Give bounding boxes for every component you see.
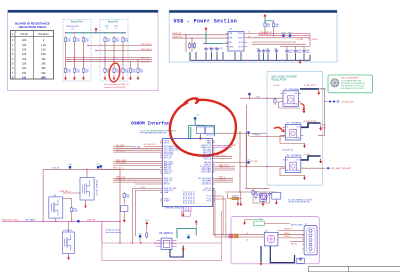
wire (113, 181, 160, 183)
wire (295, 53, 297, 60)
capacitor C42 (266, 49, 269, 54)
node junction (122, 57, 123, 58)
svg-text:REGULATOR: REGULATOR (272, 78, 287, 81)
svg-text:10U: 10U (289, 52, 293, 54)
wire thick out (301, 123, 321, 127)
wire (215, 236, 264, 238)
svg-text:SPI1_CS: SPI1_CS (164, 157, 172, 159)
node shell comp (297, 258, 305, 263)
wire (253, 202, 270, 204)
wire (86, 169, 88, 177)
wire (101, 221, 103, 243)
node junction (154, 242, 155, 243)
svg-text:MICRO USB B: MICRO USB B (291, 225, 304, 227)
wire (240, 97, 283, 99)
svg-text:resistors for SKU9 (NP): resistors for SKU9 (NP) (104, 86, 126, 89)
node FB1 (254, 221, 265, 226)
ground (129, 76, 132, 81)
resistor R11 10K (73, 36, 80, 43)
node junction (132, 242, 133, 243)
svg-text:USB_D+: USB_D+ (284, 233, 291, 235)
svg-text:TPS7B6950: TPS7B6950 (291, 155, 303, 157)
wire (240, 52, 242, 60)
wire (205, 52, 207, 60)
wire (113, 165, 160, 167)
svg-text:TP26: TP26 (281, 33, 286, 35)
svg-text:C60 0.1U: C60 0.1U (197, 125, 205, 127)
node usb connector box (231, 217, 319, 264)
wire pink loop (102, 211, 222, 261)
resistor R65 (70, 206, 78, 213)
resistor R21 10K (113, 36, 120, 43)
wire (211, 52, 213, 60)
power (195, 220, 198, 225)
node junction (113, 57, 114, 58)
node regulator box (267, 72, 323, 186)
node junction (74, 57, 75, 58)
svg-text:USB_TX_N: USB_TX_N (219, 167, 229, 169)
svg-text:OSC_OUT: OSC_OUT (203, 190, 212, 192)
capacitor C30 (204, 47, 212, 52)
wire (63, 192, 80, 194)
svg-text:BRD_ID0: BRD_ID0 (141, 57, 150, 59)
wire (134, 190, 136, 236)
op-amp U3 charger (228, 32, 244, 52)
node TP26 (281, 33, 286, 37)
wire (303, 53, 305, 60)
svg-text:GPIO_SPI_HOLD: GPIO_SPI_HOLD (194, 190, 196, 204)
svg-text:VCAP2: VCAP2 (164, 200, 170, 203)
node junction (246, 60, 247, 61)
capacitor C46 (302, 49, 310, 54)
wire navy (170, 246, 183, 257)
wire BRD_ID2 (66, 61, 153, 63)
svg-text:OUT1: OUT1 (238, 42, 243, 44)
svg-text:+5_MD: +5_MD (303, 154, 310, 156)
node junction (234, 60, 235, 61)
ground (243, 220, 246, 225)
svg-text:10K: 10K (22, 58, 27, 61)
capacitor C41 (262, 49, 265, 54)
wire (239, 131, 241, 192)
svg-text:5V0: 5V0 (96, 164, 99, 166)
node junction (119, 221, 120, 222)
wire (252, 41, 296, 43)
wire (182, 245, 184, 248)
svg-text:AP_WAKE: AP_WAKE (26, 218, 36, 221)
node Board Rev box (63, 20, 91, 82)
wire (69, 168, 71, 169)
wire (252, 43, 306, 45)
wire (113, 161, 160, 163)
node logo (330, 78, 339, 87)
svg-text:OUT: OUT (296, 127, 299, 129)
svg-text:Don't populate the BRD_ID: Don't populate the BRD_ID (104, 83, 130, 86)
svg-text:SD_CLK: SD_CLK (116, 147, 124, 149)
svg-text:Boot-loader disable: Boot-loader disable (106, 231, 121, 234)
wire (213, 234, 264, 236)
svg-text:62K: 62K (41, 72, 46, 75)
wire (250, 136, 285, 138)
wire (190, 127, 192, 139)
node node (138, 233, 141, 237)
capacitor C70 (299, 257, 302, 262)
node junction (195, 60, 196, 61)
svg-text:10U: 10U (297, 52, 301, 54)
svg-text:OUT: OUT (294, 93, 297, 95)
wire (286, 53, 288, 60)
wire (215, 169, 235, 171)
resistor R20 10K (104, 36, 111, 43)
svg-text:GPIO_SPI_HOLD: GPIO_SPI_HOLD (184, 190, 186, 204)
wire (215, 165, 235, 167)
wire (319, 88, 325, 90)
svg-text:SHORT & THE 0NR BY R31...: SHORT & THE 0NR BY R31... (288, 202, 311, 204)
wire ground bus (190, 52, 310, 60)
wire (68, 221, 70, 232)
wire ID (290, 241, 304, 243)
svg-text:Pull-Up: Pull-Up (20, 34, 28, 36)
svg-text:SWD_DIO: SWD_DIO (116, 179, 125, 181)
svg-text:R82 1K: R82 1K (291, 244, 298, 246)
resistor R33 inline (232, 197, 239, 200)
wire (123, 199, 125, 204)
node junction (113, 32, 114, 33)
wire VBUS (278, 230, 304, 232)
ground (303, 143, 306, 148)
svg-text:PWR_BTN_L R44 0: PWR_BTN_L R44 0 (2, 219, 19, 221)
wire SD_D0 (113, 149, 160, 151)
node junction (119, 242, 120, 243)
svg-text:10U: 10U (306, 52, 310, 54)
wire (131, 189, 133, 244)
resistor R70 (146, 232, 148, 239)
op-amp U5 regulator (285, 125, 301, 141)
wire (97, 168, 99, 169)
ground (239, 201, 242, 206)
wire (113, 163, 160, 165)
svg-text:Q5 PMOS_SOT23: Q5 PMOS_SOT23 (95, 180, 97, 196)
wire (215, 144, 232, 146)
power 5V0 (205, 27, 208, 32)
wire (55, 218, 57, 221)
wire (216, 52, 218, 60)
svg-text:L2: L2 (246, 233, 248, 235)
svg-text:SPI_CLK_R: SPI_CLK_R (216, 155, 227, 157)
wire (123, 212, 125, 220)
node junction (222, 60, 223, 61)
wire (247, 37, 310, 39)
svg-text:SPI2_CS: SPI2_CS (204, 158, 212, 160)
svg-text:TP27: TP27 (288, 33, 293, 35)
node comp (272, 192, 281, 199)
resistor R45 (264, 22, 271, 29)
svg-text:10K: 10K (22, 62, 27, 65)
node TP27 (288, 33, 293, 37)
node beads (230, 234, 234, 236)
svg-text:VOUT: VOUT (238, 33, 244, 35)
node U2 right pins (213, 140, 215, 142)
wire (264, 222, 290, 224)
svg-text:BRD_REV0: BRD_REV0 (141, 44, 152, 46)
wire (195, 52, 197, 60)
node header J2 (182, 211, 191, 216)
node node (247, 131, 249, 133)
node BOARD ID RESISTANCE SELECTION TABLE (11, 31, 54, 80)
wire (248, 134, 250, 136)
wire (191, 38, 193, 52)
op-amp U6 regulator (285, 157, 301, 173)
svg-text:BOOT0: BOOT0 (164, 184, 170, 186)
node USB Power Section box (169, 10, 337, 62)
wire (43, 168, 120, 170)
wire (215, 179, 233, 181)
wire (71, 198, 73, 206)
svg-text:SPK_AMP: SPK_AMP (331, 167, 342, 170)
wire (276, 53, 278, 60)
op-amp U8 (161, 238, 172, 249)
ground (67, 255, 70, 260)
wire (185, 35, 187, 52)
svg-text:+5_MD: +5_MD (297, 39, 304, 41)
ground (237, 201, 240, 206)
power (145, 220, 149, 227)
wire (42, 169, 44, 221)
wire (215, 158, 232, 160)
wire (113, 177, 160, 179)
ground (122, 76, 125, 81)
wire (188, 125, 190, 139)
ground (182, 246, 185, 251)
wire (234, 52, 236, 60)
power out (319, 159, 322, 164)
svg-text:L3: L3 (246, 240, 248, 242)
wire (189, 124, 215, 126)
power PP1V8 (319, 126, 322, 131)
svg-text:USB - Power Section: USB - Power Section (174, 19, 238, 25)
node junction (205, 60, 206, 61)
svg-text:BRD_REV1: BRD_REV1 (116, 162, 126, 164)
node U2 left pins (160, 140, 162, 142)
svg-text:GPIO_PB14: GPIO_PB14 (201, 172, 211, 174)
transistor Q6 (49, 197, 63, 218)
node junction (140, 242, 141, 243)
resistor R50 inline (132, 145, 144, 148)
node junction (294, 60, 295, 61)
wire (280, 46, 310, 48)
svg-text:SPK AMP: SPK AMP (342, 167, 351, 170)
wire (215, 195, 223, 197)
wire (65, 44, 67, 68)
ground (199, 136, 202, 141)
svg-text:INFORMATION CONTAINED IS: INFORMATION CONTAINED IS (341, 82, 366, 85)
wire (286, 47, 288, 49)
op-amp U4 regulator (283, 91, 299, 107)
wire BRD_ID0 (66, 57, 153, 59)
wire (71, 214, 73, 222)
ground (64, 76, 67, 81)
node left section frame (8, 10, 159, 91)
svg-text:WP_L/HOLD_L: WP_L/HOLD_L (144, 144, 157, 146)
wire (194, 120, 196, 126)
wire BRD_REV1 (96, 50, 152, 52)
svg-text:J1: J1 (305, 224, 307, 226)
svg-text:TPS7B6950: TPS7B6950 (289, 89, 301, 91)
wire (215, 132, 246, 134)
svg-text:GPIO2: GPIO2 (164, 143, 169, 145)
svg-text:5.6K: 5.6K (41, 53, 46, 56)
wire BRD_REV0 (88, 45, 152, 47)
node junction (104, 57, 105, 58)
wire (244, 219, 246, 222)
svg-text:(NP): (NP) (41, 76, 46, 79)
resistor R46 (272, 22, 279, 29)
node node (187, 234, 190, 238)
svg-text:R50 10K: R50 10K (133, 146, 141, 148)
wire (280, 167, 285, 169)
wire (119, 169, 121, 243)
svg-text:GND: GND (229, 46, 234, 48)
resistor R34 (113, 67, 120, 74)
wire top bar left (8, 10, 158, 13)
resistor R40 (188, 42, 195, 49)
wire (113, 179, 160, 181)
svg-text:OSROM Interface: OSROM Interface (131, 121, 173, 127)
ground (84, 204, 87, 209)
svg-text:Pull-Down: Pull-Down (38, 34, 49, 36)
node node (96, 164, 99, 168)
wire (146, 227, 148, 232)
svg-text:3.3K: 3.3K (41, 49, 46, 52)
wire (139, 238, 141, 244)
resistor R80 (255, 192, 262, 199)
node node (77, 220, 79, 222)
svg-text:5V0: 5V0 (138, 233, 141, 235)
wire (68, 254, 70, 258)
svg-text:10K: 10K (22, 67, 27, 70)
node node (68, 164, 71, 168)
node junction (104, 32, 105, 33)
capacitor C61 (205, 127, 214, 134)
wire (214, 189, 216, 191)
svg-text:10K: 10K (22, 76, 27, 79)
svg-text:C41: C41 (266, 48, 269, 50)
resistor R37 (137, 67, 144, 74)
wire (324, 102, 326, 136)
wire USB_DP (278, 234, 304, 236)
wire (101, 168, 160, 170)
svg-text:+5_MD TP28: +5_MD TP28 (304, 85, 317, 87)
node junction (74, 32, 75, 33)
svg-text:10K: 10K (41, 58, 46, 61)
wire (205, 32, 207, 44)
ground (303, 109, 306, 114)
wire (246, 105, 248, 167)
wire (203, 43, 222, 45)
svg-text:Board ID: Board ID (108, 19, 118, 23)
power 3V3_MIC (317, 90, 320, 95)
svg-text:R33 33: R33 33 (232, 195, 238, 197)
svg-text:BRD_ID1: BRD_ID1 (141, 61, 150, 63)
wire (239, 198, 243, 200)
svg-text:WINBOND_W25Q64JV: WINBOND_W25Q64JV (165, 208, 185, 210)
resistor R31 (73, 67, 80, 74)
ground (73, 76, 76, 81)
transistor D3 (260, 193, 267, 200)
wire (104, 44, 106, 68)
svg-text:FB1 BEAD: FB1 BEAD (255, 218, 264, 221)
ground (303, 175, 306, 180)
wire (249, 94, 251, 98)
resistor R12 10K (82, 36, 89, 43)
op-amp U9 ESD (264, 232, 278, 246)
node junction (83, 57, 84, 58)
svg-text:5V0: 5V0 (187, 234, 190, 236)
wire (122, 44, 124, 68)
svg-text:OUT2: OUT2 (238, 46, 243, 48)
wire (258, 35, 310, 37)
ground (182, 212, 185, 217)
wire (215, 177, 233, 179)
ground (82, 76, 85, 81)
node junction (122, 32, 123, 33)
svg-text:16K: 16K (41, 62, 46, 65)
svg-text:GPIO_SPI_HOLD: GPIO_SPI_HOLD (189, 190, 191, 204)
resistor R10 10K (64, 36, 71, 43)
ground (123, 218, 126, 223)
wire (258, 53, 260, 60)
node annotation circle (170, 98, 236, 155)
node node (100, 165, 102, 167)
ground (113, 76, 116, 81)
node annotation oval (108, 62, 121, 82)
node annotation arrow (301, 104, 305, 110)
svg-text:1.5K_NL: 1.5K_NL (52, 167, 61, 169)
wire USB_DM (278, 237, 304, 239)
node junctions (228, 234, 229, 235)
svg-text:C40: C40 (257, 48, 260, 50)
svg-text:C42: C42 (274, 48, 277, 50)
ground (275, 200, 278, 205)
node junction (42, 221, 43, 222)
node node (194, 117, 196, 119)
svg-text:PWR_EN: PWR_EN (87, 219, 96, 221)
node junction (211, 60, 212, 61)
node connector J1 (304, 226, 317, 255)
capacitor C45 (294, 49, 302, 54)
ground (260, 261, 263, 266)
svg-text:USB_D-: USB_D- (284, 236, 291, 238)
svg-text:SELECTION TABLE: SELECTION TABLE (19, 25, 47, 29)
svg-text:10K: 10K (22, 39, 27, 42)
resistor R36 (129, 67, 136, 74)
wire (213, 125, 215, 136)
transistor Q5 (80, 178, 94, 201)
power 3V3 (95, 27, 98, 32)
node diamond glyphs (329, 100, 332, 102)
svg-text:100K: 100K (73, 211, 78, 213)
node Board ID box (100, 20, 128, 82)
wire (215, 198, 226, 200)
wire BRD_ID1 (66, 59, 153, 61)
ground (137, 76, 140, 81)
node junction (83, 32, 84, 33)
node junction (65, 32, 66, 33)
transistor Q7 (63, 232, 75, 254)
svg-text:BRD_REV1: BRD_REV1 (141, 49, 152, 51)
node junction (270, 60, 271, 61)
svg-text:10K: 10K (22, 53, 27, 56)
